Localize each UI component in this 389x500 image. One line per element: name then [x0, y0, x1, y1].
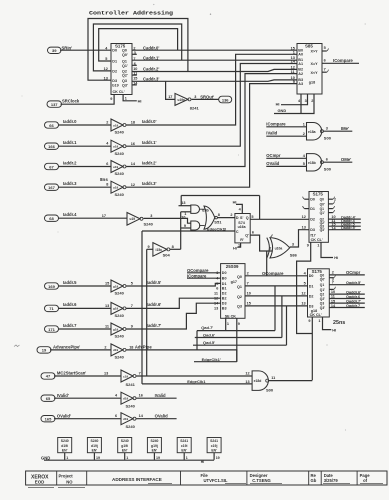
svg-text:S175: S175 [313, 192, 324, 197]
wire EdgeClk source vertical [146, 249, 148, 376]
svg-text:3: 3 [292, 242, 294, 246]
wire g17 SE pin 1 to Qad.7' [226, 318, 229, 330]
register g18 S175 (Oaddr) [308, 269, 330, 317]
svg-text:8: 8 [106, 183, 108, 187]
enable block g19i S240 EN' [118, 438, 132, 453]
svg-text:1: 1 [186, 456, 188, 460]
svg-text:ICompare: ICompare [266, 121, 286, 126]
svg-text:g19: g19 [113, 327, 119, 331]
svg-text:9: 9 [307, 243, 309, 247]
buffer c19 S241 MC2StartScan [121, 370, 136, 387]
svg-text:Iaddr.5': Iaddr.5' [147, 280, 162, 285]
svg-text:7: 7 [247, 282, 249, 286]
svg-text:S240: S240 [121, 439, 129, 443]
svg-text:13: 13 [302, 226, 306, 230]
title block frame [26, 471, 387, 485]
svg-text:D: D [236, 216, 239, 220]
svg-text:15: 15 [105, 282, 109, 286]
svg-text:Q1': Q1' [320, 288, 325, 292]
svg-text:1: 1 [126, 456, 128, 460]
svg-text:S240: S240 [150, 439, 158, 443]
wire ICompare into g17 B0 pin 4 [187, 273, 221, 278]
svg-text:17: 17 [168, 95, 172, 99]
svg-text:D1: D1 [112, 59, 117, 63]
svg-text:Iaddr.0': Iaddr.0' [142, 119, 157, 124]
svg-text:D3: D3 [310, 228, 315, 232]
wire inverter output riser [180, 212, 182, 250]
wire Iaddr.3 to buffer [58, 183, 111, 188]
svg-text:3: 3 [326, 126, 328, 130]
svg-text:25S09: 25S09 [226, 264, 239, 269]
wire S74 Q feedback to AOI pin 13 [179, 196, 260, 206]
svg-text:D0: D0 [112, 49, 117, 53]
svg-text:6: 6 [106, 162, 108, 166]
svg-text:Hi: Hi [334, 255, 338, 260]
svg-text:u19: u19 [113, 186, 119, 190]
wire Qaddr.4 pin 11 [328, 219, 360, 223]
svg-text:A1: A1 [298, 62, 303, 66]
enable block g19j S240 EN' [147, 438, 161, 453]
svg-text:5: 5 [324, 46, 326, 50]
svg-text:D2: D2 [112, 69, 117, 73]
svg-text:OMe': OMe' [341, 157, 351, 162]
svg-text:11: 11 [214, 292, 218, 296]
nand gate e18d S00 [252, 371, 274, 393]
svg-text:X<Y: X<Y [311, 71, 319, 75]
svg-text:Q1: Q1 [237, 285, 242, 289]
svg-text:S240: S240 [90, 439, 98, 443]
svg-text:CK CL': CK CL' [310, 313, 322, 317]
svg-text:Iaddr.1: Iaddr.1 [63, 140, 77, 145]
stub comparator cascade pin 3 tied Hi [276, 94, 308, 107]
stub f17 Q1 no-connect [328, 206, 334, 209]
svg-text:OValid: OValid [266, 161, 279, 166]
buffer d19 S240 IValid [121, 392, 136, 408]
svg-text:65: 65 [46, 396, 51, 401]
svg-text:3: 3 [224, 227, 226, 231]
svg-text:Project: Project [59, 473, 74, 478]
svg-text:Qaddr.5': Qaddr.5' [341, 226, 356, 230]
svg-text:d19: d19 [113, 348, 119, 352]
svg-text:Q1: Q1 [320, 283, 325, 287]
svg-text:D1: D1 [309, 284, 314, 288]
stub f17 D0 no-connect [303, 197, 309, 200]
svg-text:EN': EN' [152, 448, 158, 452]
svg-text:D2: D2 [310, 218, 315, 222]
input box 68 Iaddr.4 [45, 212, 78, 221]
svg-text:D3: D3 [222, 302, 227, 306]
buffer u19 S240 row Iaddr.2 [111, 161, 126, 177]
wire Oaddr.7 g18 Q3' pin 14 [329, 304, 365, 308]
svg-text:8241: 8241 [190, 105, 200, 110]
and gate u14b lower [191, 221, 205, 230]
wire c19i EN' pin 1 to GND [184, 453, 188, 460]
wire OValid' to buffer pin 6 [54, 414, 121, 419]
input box 65 IValid' [41, 393, 69, 402]
svg-text:Iaddr.5: Iaddr.5 [63, 280, 77, 285]
title block Designer cell [250, 473, 282, 484]
svg-text:Caddr.2': Caddr.2' [143, 67, 159, 72]
svg-text:S241: S241 [126, 382, 136, 387]
wire AOI output pin 8 to S74 D pin 2 [217, 213, 235, 217]
svg-text:1: 1 [66, 456, 68, 460]
wire Iaddr.0 to buffer [58, 121, 111, 126]
input box 169 Iaddr.5 [45, 280, 78, 289]
svg-text:3/25/79: 3/25/79 [324, 478, 339, 483]
svg-text:X>Y: X>Y [311, 50, 319, 54]
svg-text:1: 1 [125, 97, 127, 101]
svg-text:AdvPipe: AdvPipe [135, 345, 152, 350]
svg-text:Hi: Hi [233, 246, 237, 251]
stub comparator cascade pin 2 tied GND [274, 94, 314, 114]
input box 19 AdvancePipe' [37, 345, 80, 353]
wire SROut' to box 136 [192, 95, 219, 100]
stub xor input pin 1 no-connect [271, 234, 273, 237]
stub f17 Q0 no-connect pin 2 [328, 197, 336, 202]
wire ICompare output pin 6 [322, 58, 359, 63]
svg-text:9: 9 [238, 322, 240, 326]
svg-text:Q: Q [246, 216, 249, 220]
wire Caddr.0' to comparator A3 pin 15 [132, 46, 297, 51]
svg-text:2: 2 [106, 121, 108, 125]
svg-text:EN': EN' [92, 448, 98, 452]
svg-text:S240: S240 [115, 291, 125, 296]
svg-text:d19: d19 [123, 397, 129, 401]
enable block c19j S241 EN' [207, 438, 221, 453]
svg-text:S240: S240 [115, 334, 125, 339]
svg-text:Q1: Q1 [122, 59, 127, 63]
svg-text:D0: D0 [222, 271, 227, 275]
svg-text:AdvancePipe': AdvancePipe' [53, 345, 80, 350]
svg-text:16: 16 [139, 394, 143, 398]
svg-text:OValid: OValid [155, 413, 168, 418]
svg-text:6: 6 [252, 231, 254, 235]
title block Rev cell [311, 473, 317, 483]
svg-text:11: 11 [331, 295, 335, 299]
buffer u19 S240 row Iaddr.0 [111, 119, 126, 135]
svg-text:Q1': Q1' [320, 211, 325, 215]
svg-text:u16a: u16a [238, 225, 246, 229]
wire inverter output pin 8 [170, 245, 181, 249]
svg-text:i14b: i14b [202, 208, 209, 212]
svg-text:Oaddr.7': Oaddr.7' [346, 299, 361, 303]
svg-text:Q0: Q0 [237, 275, 242, 279]
svg-text:Q2': Q2' [122, 74, 128, 78]
input box 39 SRIn' [48, 46, 73, 54]
svg-text:3: 3 [194, 95, 196, 99]
wire g18 CL' pin 1 tied Hi [318, 317, 336, 332]
svg-text:A2: A2 [298, 72, 303, 76]
wire d19i EN' pin 1 to GND [65, 453, 69, 460]
svg-text:2: 2 [332, 271, 334, 275]
svg-text:SE CK: SE CK [225, 314, 237, 318]
svg-text:CK CL': CK CL' [311, 238, 323, 242]
svg-text:Q1': Q1' [122, 64, 128, 68]
svg-text:Hi: Hi [276, 102, 280, 107]
input box 137 SRClock [47, 99, 80, 108]
svg-text:71: 71 [49, 306, 54, 311]
wire Iaddr.4 to buffer pin 17 [58, 214, 127, 218]
svg-text:1: 1 [303, 122, 305, 126]
label 8ns [100, 177, 108, 182]
svg-text:8: 8 [172, 245, 174, 249]
wire g18 CK pin 9 from e18d [308, 317, 312, 380]
comparator g18 S85 [297, 43, 322, 94]
svg-text:A0: A0 [298, 53, 303, 57]
wire OMe' output pin 6 [324, 157, 353, 162]
input box 71 Iaddr.6 [45, 302, 78, 311]
svg-text:D1: D1 [222, 282, 227, 286]
nand gate e18a S00 [307, 123, 332, 141]
svg-text:D3: D3 [309, 304, 314, 308]
svg-text:13: 13 [245, 380, 249, 384]
stub f17 Q1' no-connect [328, 210, 334, 213]
svg-text:13: 13 [104, 372, 108, 376]
wire OCompare into g17 D0 pin 3 [187, 268, 221, 273]
input box 67 Iaddr.2 [45, 160, 78, 169]
svg-text:g17: g17 [231, 280, 237, 284]
svg-text:IMe': IMe' [341, 126, 349, 131]
wire IMe' output pin 3 [324, 126, 353, 131]
svg-text:17: 17 [102, 214, 106, 218]
svg-text:u19a: u19a [178, 98, 185, 102]
svg-text:D1: D1 [310, 207, 315, 211]
buffer g19 S240 row Iaddr.5 [111, 280, 126, 296]
wire Iaddr.7' to g17 D3 pin 14 [126, 303, 221, 329]
input box 47 MC2StartScan' [41, 371, 86, 379]
svg-text:9: 9 [131, 325, 133, 329]
wire S74 Q feedback riser [259, 196, 261, 220]
svg-text:Iaddr.6: Iaddr.6 [63, 302, 77, 307]
svg-text:10: 10 [331, 290, 335, 294]
svg-text:Caddr.1': Caddr.1' [143, 56, 159, 61]
svg-text:9: 9 [184, 224, 186, 228]
svg-text:S241: S241 [180, 439, 188, 443]
wire AdvPipe to EdgeClk1' net [126, 350, 237, 362]
wire Caddr.3' tap to u19a input pin 17 [166, 81, 175, 99]
svg-text:171: 171 [48, 327, 55, 332]
svg-text:1: 1 [184, 212, 186, 216]
svg-text:GND: GND [41, 455, 50, 460]
wire Iaddr.2' to comparator pin 11 [126, 74, 297, 167]
svg-text:EN': EN' [122, 448, 128, 452]
svg-text:d19i: d19i [61, 444, 68, 448]
svg-text:HI: HI [332, 327, 336, 332]
svg-text:S240: S240 [126, 404, 136, 409]
svg-text:ICompare: ICompare [187, 273, 207, 278]
svg-text:NO: NO [66, 479, 73, 484]
svg-text:D0: D0 [309, 274, 314, 278]
svg-text:2: 2 [311, 99, 313, 103]
svg-text:S240: S240 [144, 222, 154, 227]
buffer u19 S240 Iaddr.4 [127, 213, 154, 227]
svg-text:18: 18 [129, 345, 133, 349]
label Iaddr.6' [131, 302, 162, 308]
svg-text:18: 18 [131, 121, 135, 125]
svg-text:6: 6 [324, 58, 326, 62]
buffer u19 S240 row Iaddr.3 [111, 181, 126, 197]
svg-text:7: 7 [139, 371, 141, 375]
svg-text:S240: S240 [115, 171, 125, 176]
wire Oaddr.6 g18 Q2' pin 11 [329, 295, 365, 299]
svg-text:15: 15 [247, 302, 251, 306]
wire Iaddr.6 to buffer [58, 304, 111, 309]
label AdvPipe pin 18 [129, 345, 152, 350]
input box 66 Iaddr.0 [45, 119, 78, 128]
svg-text:16: 16 [131, 142, 135, 146]
and gate u14b upper [191, 205, 205, 213]
svg-text:EN': EN' [211, 448, 217, 452]
svg-text:GND: GND [278, 108, 287, 113]
wire feedback Caddr.2' to D3 (outer loop) [88, 19, 188, 81]
buffer u19 S240 row Iaddr.1 [111, 140, 126, 156]
flip-flop u16a S74 [235, 214, 250, 243]
svg-text:3: 3 [305, 99, 307, 103]
wire Iaddr.4' to AOI gate pin 10 [144, 214, 191, 223]
wire OValid output pin 14 [136, 413, 177, 418]
pin numbers comparator inputs [291, 46, 296, 83]
enable block c19i S241 EN' [177, 438, 191, 453]
svg-text:6: 6 [115, 414, 117, 418]
svg-text:9: 9 [110, 97, 112, 101]
svg-text:ADDRESS INTERFACE: ADDRESS INTERFACE [112, 477, 162, 482]
label HI near c19j [201, 460, 204, 464]
svg-text:19: 19 [156, 456, 160, 460]
svg-text:IValid: IValid [155, 393, 166, 398]
svg-text:S04: S04 [163, 253, 171, 258]
wire Iaddr.1 to buffer [58, 142, 111, 147]
wire S74 R' pin 1 tied Hi [233, 243, 241, 251]
buffer g19 S240 row Iaddr.6 [111, 302, 126, 318]
svg-text:SROut': SROut' [200, 95, 214, 100]
svg-text:6: 6 [326, 157, 328, 161]
wire f17 CL' pin 1 tied Hi [317, 242, 338, 260]
svg-text:Caddr.0': Caddr.0' [143, 46, 159, 51]
svg-text:8: 8 [218, 213, 220, 217]
svg-text:2: 2 [247, 271, 249, 275]
svg-text:g19: g19 [113, 284, 119, 288]
wire EdgeClk1' vertical to e18d [141, 231, 143, 384]
svg-text:g19i: g19i [121, 444, 128, 448]
svg-text:7: 7 [131, 304, 133, 308]
svg-text:15: 15 [331, 299, 335, 303]
stray mark left edge [14, 345, 20, 347]
wire Caddr.1' to comparator A2 pin 13 [132, 56, 297, 61]
or gate u14b S51 output [202, 206, 222, 229]
svg-text:MC2StartScan': MC2StartScan' [57, 371, 86, 376]
svg-text:Oaddr.6: Oaddr.6 [346, 295, 360, 299]
svg-text:S00: S00 [324, 167, 332, 172]
svg-text:5: 5 [251, 215, 253, 219]
svg-text:Q2: Q2 [320, 293, 325, 297]
mux register g17 25S09 [221, 264, 245, 319]
pin numbers b19 D inputs 4 5 12 13 [104, 46, 109, 80]
wire EdgeClk1' to S74 C pin 3 [142, 226, 235, 231]
svg-text:c19: c19 [123, 374, 128, 378]
svg-text:2: 2 [303, 132, 305, 136]
svg-text:S86: S86 [290, 252, 298, 257]
svg-text:11: 11 [105, 325, 109, 329]
svg-text:137: 137 [51, 102, 58, 107]
svg-text:Q0': Q0' [122, 53, 128, 57]
svg-text:11: 11 [271, 376, 275, 380]
stub comparator X<Y pin 7 [322, 67, 328, 72]
wire MC2StartScan' to buffer pin 13 [54, 372, 121, 376]
svg-text:EdgeClk1: EdgeClk1 [187, 379, 206, 384]
svg-text:d19: d19 [123, 417, 129, 421]
wire g17 Q1 pin 7 to g18 D1 pin 5 [245, 282, 308, 286]
svg-text:D2: D2 [222, 292, 227, 296]
svg-text:15: 15 [133, 76, 137, 80]
svg-text:OCompare: OCompare [187, 268, 209, 273]
stub comparator cascade pin 4 [298, 94, 301, 114]
svg-text:13: 13 [301, 302, 305, 306]
input box 171 Iaddr.7 [45, 323, 78, 332]
svg-text:Iaddr.2': Iaddr.2' [142, 160, 157, 165]
title Controller Addressing [89, 10, 174, 17]
svg-text:167: 167 [48, 185, 55, 190]
svg-text:5: 5 [131, 282, 133, 286]
wire Iaddr.1' to comparator pin 14 [126, 64, 297, 147]
svg-text:Iaddr.2: Iaddr.2 [63, 160, 77, 165]
svg-text:Q0': Q0' [320, 202, 325, 206]
register b19 S175 (controller address shift register) [111, 44, 132, 95]
svg-text:u19: u19 [130, 217, 136, 221]
label 25ns [333, 320, 345, 326]
wire IValid to e18a pin 2 [266, 131, 306, 137]
stub f17 Q0' no-connect pin 3 [328, 201, 334, 204]
svg-text:13: 13 [105, 304, 109, 308]
svg-text:Oaddr.5': Oaddr.5' [346, 281, 361, 285]
svg-text:Q2': Q2' [320, 297, 325, 301]
svg-text:68: 68 [49, 216, 54, 221]
svg-text:12: 12 [301, 292, 305, 296]
svg-text:B0: B0 [222, 276, 227, 280]
svg-text:2: 2 [334, 198, 336, 202]
svg-text:Controller Addressing: Controller Addressing [89, 10, 174, 17]
svg-text:e18a: e18a [308, 130, 316, 134]
svg-text:Qad.6': Qad.6' [203, 332, 215, 337]
title block XEROX cell [28, 474, 54, 487]
svg-text:Q0: Q0 [122, 49, 127, 53]
ground rail GND [41, 455, 214, 460]
svg-text:7: 7 [332, 281, 334, 285]
svg-text:Oaddr.7: Oaddr.7 [346, 304, 360, 308]
svg-text:8ns: 8ns [100, 177, 108, 182]
svg-text:R': R' [240, 238, 244, 242]
buffer d19 S240 OValid [121, 413, 136, 429]
wire Iaddr.6' to g17 B2 pin 12 [126, 298, 221, 308]
stub b19 Q0' [132, 53, 137, 55]
svg-text:OCmpr: OCmpr [266, 153, 281, 158]
svg-text:19: 19 [42, 348, 47, 353]
wire Iaddr.0' to comparator pin 1 [126, 54, 297, 125]
svg-text:166: 166 [48, 144, 55, 149]
wire e18d output pin 11 clock to g18/f17 [269, 376, 313, 381]
wire Oaddr.6' g18 Q2 pin 10 [329, 290, 365, 295]
svg-text:Q0': Q0' [320, 278, 325, 282]
svg-text:Iaddr.7': Iaddr.7' [147, 323, 162, 328]
svg-text:13: 13 [214, 307, 218, 311]
svg-text:S240: S240 [115, 355, 125, 360]
svg-text:Qad.5': Qad.5' [203, 340, 215, 345]
wire f17 CK pin 9 to clock net [297, 242, 313, 333]
enable block d19i S240 EN' [58, 438, 72, 453]
svg-text:S240: S240 [115, 151, 125, 156]
wire Caddr.2' to comparator A1 pin 12 [132, 67, 297, 72]
svg-text:IValid': IValid' [57, 393, 69, 398]
title block Project cell [58, 473, 85, 487]
